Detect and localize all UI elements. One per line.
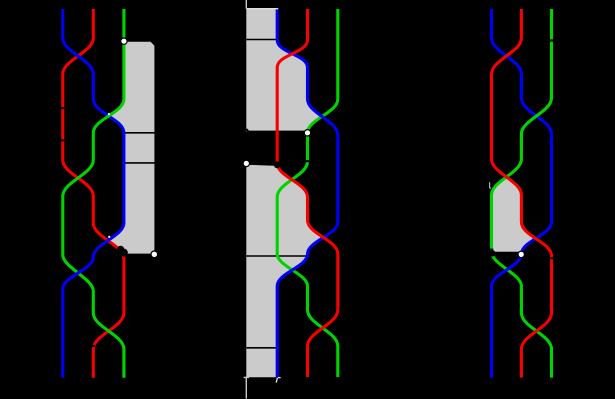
panel 2 upper block bottom edge — [249, 131, 307, 133]
panel 3 puncture dot (white) — [518, 251, 524, 257]
panel 1 bottom junction dot (black) — [117, 246, 128, 257]
panel 2 upper block top edge (light) — [246, 8, 278, 10]
panel 2 separator line lower — [246, 347, 278, 349]
panel 2 junction dot (black) — [274, 161, 281, 168]
panel 3 blue strand — [492, 9, 552, 378]
panel 3 strand joint gaps — [490, 39, 553, 259]
shaded region panel 1 — [108, 42, 154, 255]
panel 2 bottom tick on blue — [276, 378, 277, 383]
panel 2 puncture dot on green (white) — [304, 130, 310, 136]
panel 3 small gray tick — [490, 182, 492, 188]
panel 2 bottom-left nub — [244, 376, 249, 378]
panel 1 separator line upper — [124, 132, 154, 134]
panel 2 bottom nub on blue — [278, 377, 281, 379]
shaded region panel 2 upper block — [246, 9, 321, 132]
panel 2 separator line top — [246, 39, 278, 41]
panel 2 green strand lower part — [277, 133, 338, 377]
panel 2 separator line middle — [246, 255, 307, 257]
panel 1 separator line lower — [124, 162, 154, 164]
panel 2 puncture dot on wall (white) — [243, 160, 249, 166]
shaded region panel 2 lower block — [246, 164, 322, 377]
panel 1 red strand — [63, 9, 124, 378]
panel 1 top puncture dot (white) — [121, 38, 127, 44]
panel 2 red strand — [277, 9, 338, 377]
panel 1 region bottom edge — [124, 254, 154, 256]
panel 1 strand joint gaps — [61, 107, 95, 347]
panel 1 bottom-right puncture dot (white) — [151, 251, 158, 258]
panel 2 green strand upper part — [308, 9, 338, 133]
panel 1 crossing D white speck — [108, 236, 110, 238]
panel 2 upper block bottom edge corner — [246, 129, 248, 132]
panel 1 crossing E blue-over patch — [63, 9, 124, 378]
panel 2 axis line bottom — [245, 377, 247, 398]
panel 2 lower block top edge — [246, 164, 277, 165]
panel 3 junction dot (black) — [489, 250, 495, 256]
panel 1 green strand — [63, 9, 124, 378]
panel 2 strand joint gap — [306, 160, 309, 162]
panel 2 axis tick top — [245, 0, 247, 9]
panel 3 red strand — [492, 9, 552, 378]
panel 3 crossing E blue-over patch — [492, 9, 552, 378]
panel 3 region bottom edge — [492, 252, 522, 254]
panel 1 blue strand — [63, 9, 124, 378]
panel 2 blue strand — [277, 9, 338, 377]
panel 3 green strand — [492, 9, 552, 378]
shaded region panel 3 — [492, 177, 535, 253]
panel 1 crossing B white speck — [108, 113, 110, 115]
